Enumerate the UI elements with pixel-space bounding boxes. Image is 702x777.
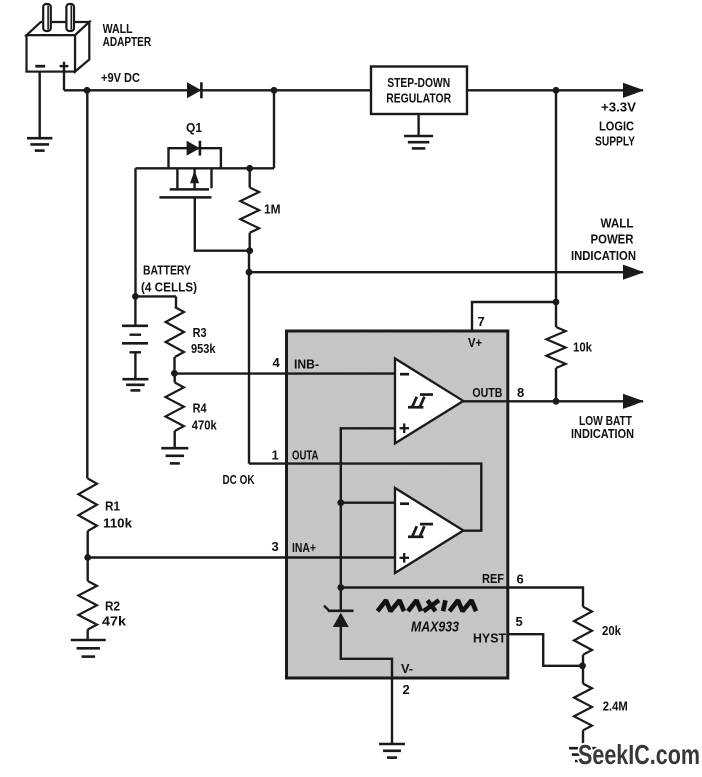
svg-text:INB-: INB- bbox=[294, 357, 319, 372]
svg-text:REGULATOR: REGULATOR bbox=[386, 92, 451, 106]
svg-text:1M: 1M bbox=[264, 202, 281, 217]
svg-text:3: 3 bbox=[272, 539, 279, 554]
svg-text:STEP-DOWN: STEP-DOWN bbox=[387, 76, 450, 90]
svg-text:BATTERY: BATTERY bbox=[143, 263, 191, 278]
svg-text:INDICATION: INDICATION bbox=[571, 248, 636, 263]
svg-text:LOGIC: LOGIC bbox=[599, 119, 635, 134]
svg-text:R3: R3 bbox=[193, 325, 207, 340]
svg-text:WALL: WALL bbox=[601, 216, 634, 231]
svg-text:1: 1 bbox=[272, 448, 279, 463]
svg-text:MAX933: MAX933 bbox=[411, 619, 460, 636]
svg-text:V-: V- bbox=[401, 661, 413, 676]
svg-text:2.4M: 2.4M bbox=[603, 699, 628, 714]
svg-text:R2: R2 bbox=[105, 599, 120, 614]
svg-text:953k: 953k bbox=[191, 341, 216, 356]
svg-text:ADAPTER: ADAPTER bbox=[103, 34, 152, 49]
svg-text:R1: R1 bbox=[105, 499, 120, 514]
svg-text:+3.3V: +3.3V bbox=[601, 100, 636, 115]
svg-text:20k: 20k bbox=[602, 623, 622, 638]
svg-text:110k: 110k bbox=[103, 516, 133, 531]
svg-text:7: 7 bbox=[478, 314, 485, 329]
svg-text:REF: REF bbox=[482, 571, 504, 586]
svg-text:(4 CELLS): (4 CELLS) bbox=[141, 280, 197, 295]
svg-text:+9V DC: +9V DC bbox=[101, 70, 141, 85]
svg-text:SUPPLY: SUPPLY bbox=[595, 134, 635, 149]
svg-text:DC OK: DC OK bbox=[223, 472, 255, 487]
svg-text:Q1: Q1 bbox=[186, 120, 202, 135]
svg-text:OUTA: OUTA bbox=[292, 448, 319, 463]
svg-text:POWER: POWER bbox=[591, 232, 635, 247]
svg-text:INDICATION: INDICATION bbox=[571, 426, 634, 441]
svg-text:47k: 47k bbox=[102, 614, 127, 629]
svg-text:R4: R4 bbox=[193, 400, 208, 415]
svg-text:8: 8 bbox=[517, 385, 524, 400]
svg-text:V+: V+ bbox=[468, 335, 482, 350]
svg-text:10k: 10k bbox=[573, 340, 593, 355]
svg-text:SeekIC.com: SeekIC.com bbox=[578, 739, 700, 770]
svg-text:6: 6 bbox=[517, 572, 524, 587]
svg-text:INA+: INA+ bbox=[292, 540, 316, 555]
svg-text:HYST: HYST bbox=[473, 631, 506, 646]
svg-text:470k: 470k bbox=[192, 418, 218, 433]
svg-text:4: 4 bbox=[273, 355, 281, 370]
svg-text:5: 5 bbox=[516, 614, 523, 629]
svg-text:2: 2 bbox=[403, 682, 410, 697]
svg-text:OUTB: OUTB bbox=[472, 385, 502, 400]
